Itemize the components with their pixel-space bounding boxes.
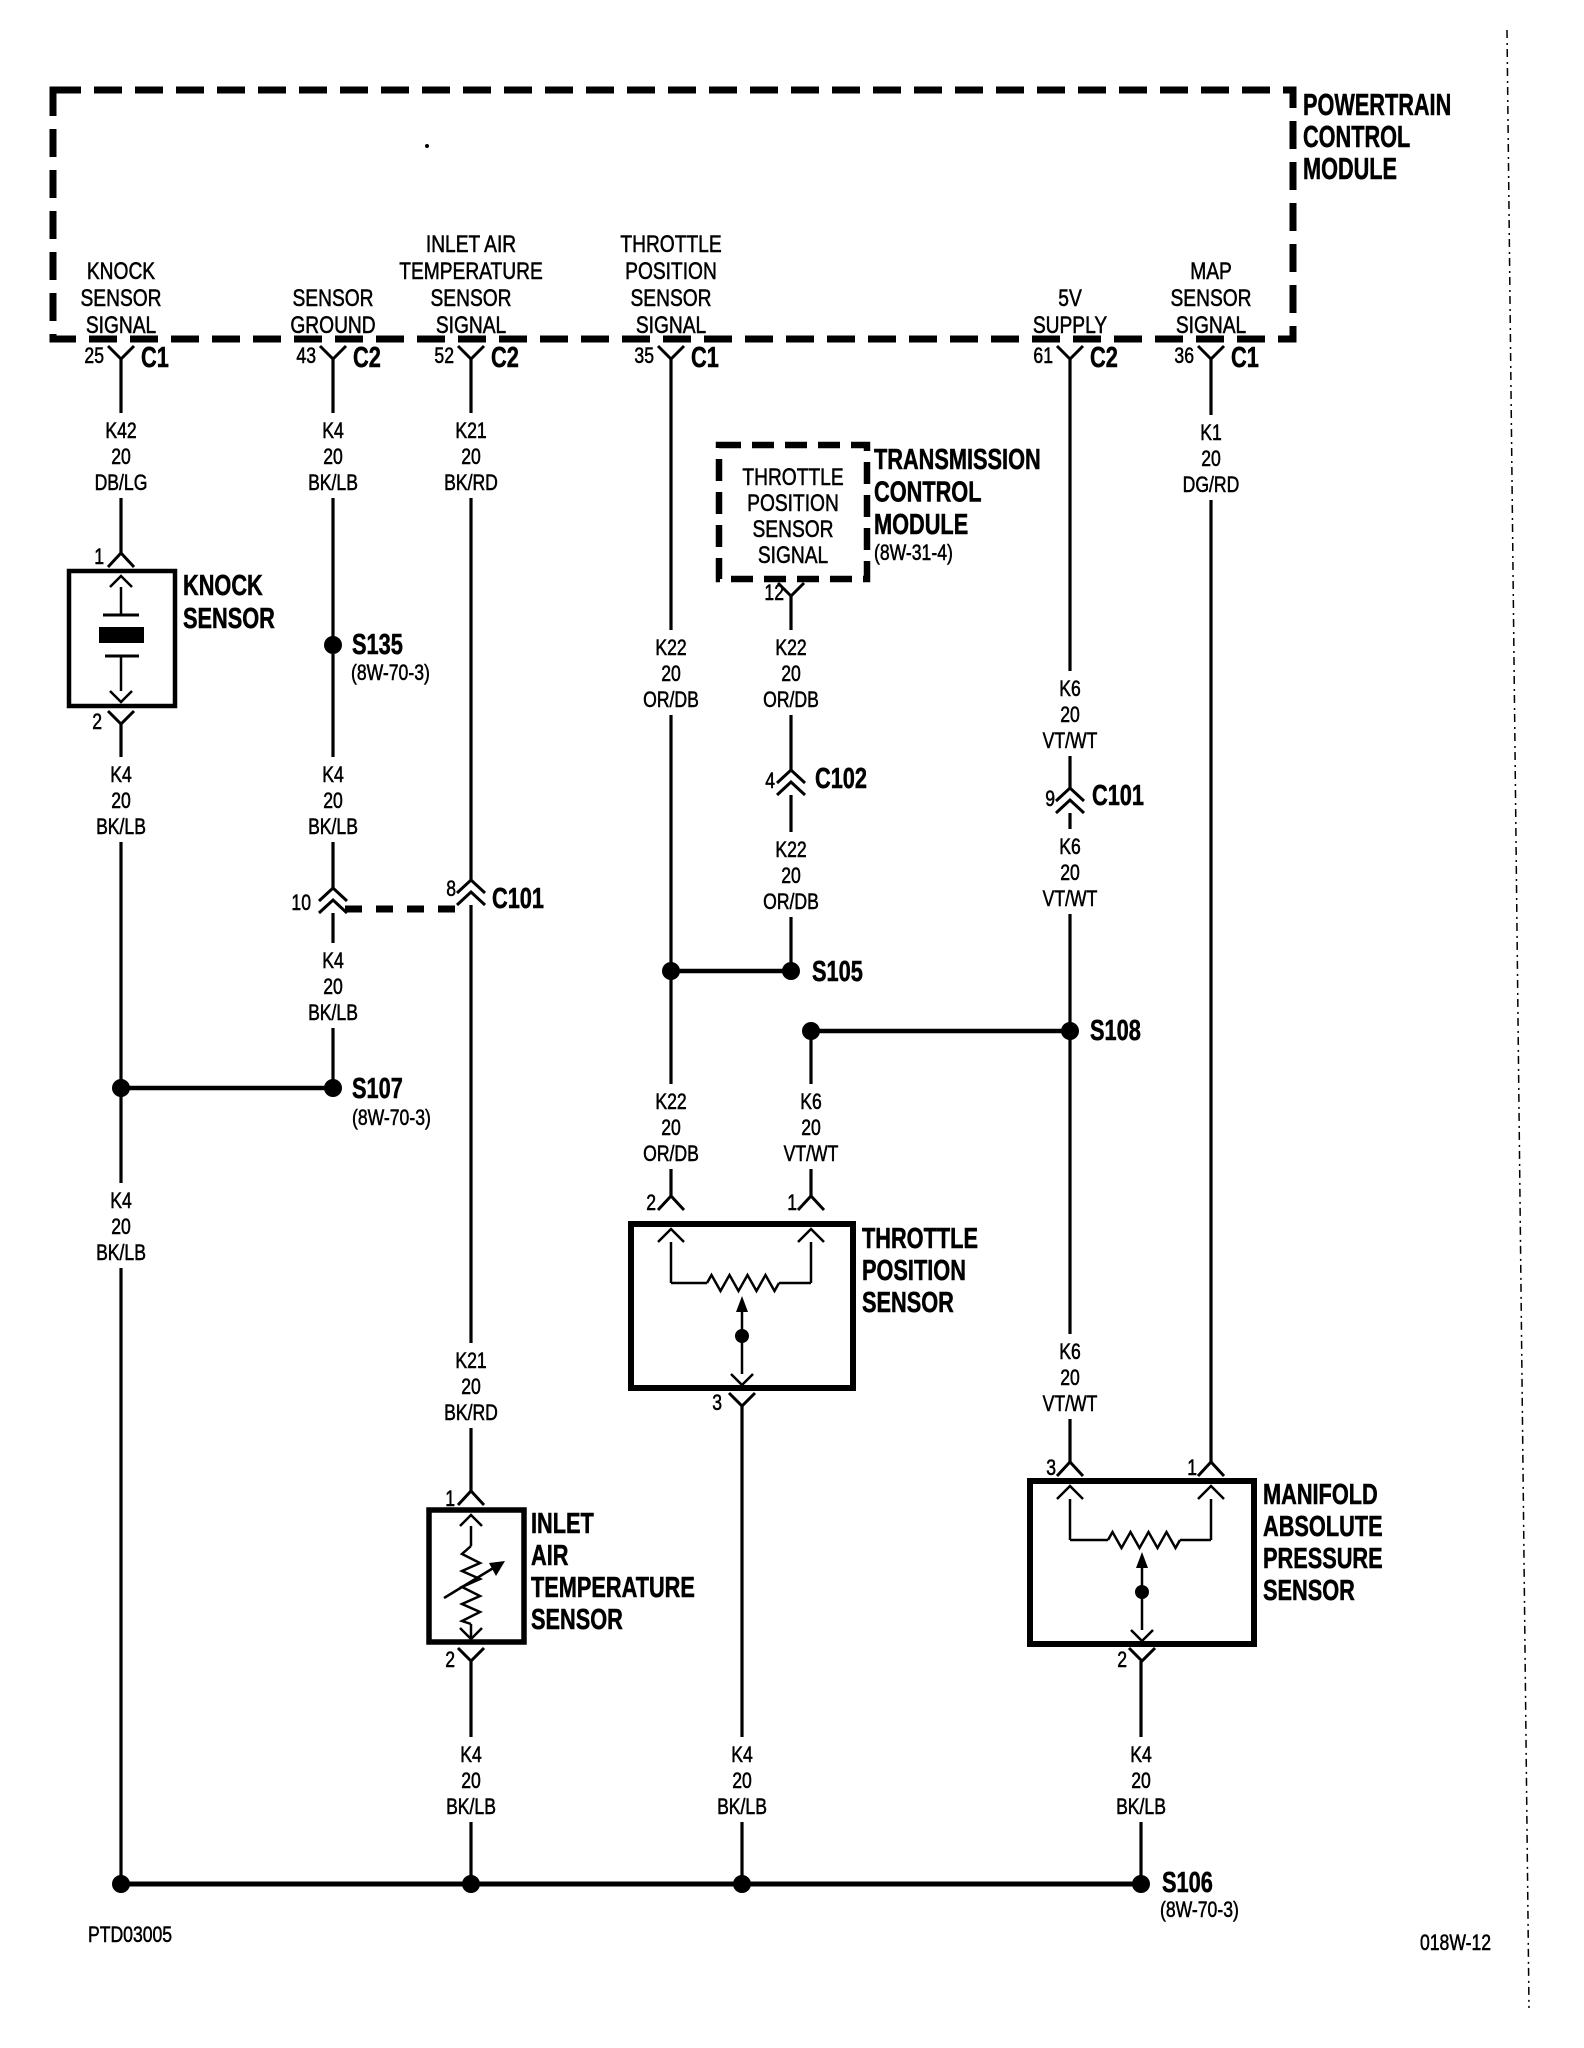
svg-text:2: 2 bbox=[1117, 1648, 1127, 1672]
svg-text:KNOCKSENSOR: KNOCKSENSOR bbox=[183, 570, 275, 635]
svg-text:PTD03005: PTD03005 bbox=[88, 1923, 172, 1947]
wire K21 20 BK/RD from connector C101 pin 8 to inlet air temperature sensor pin 1 bbox=[469, 905, 472, 1491]
knock sensor KS1 (piezoelectric element) bbox=[69, 571, 175, 706]
splice S105 junction line bbox=[662, 956, 863, 988]
PCM pin 52 connector C2 bbox=[434, 342, 518, 374]
wire K22 20 OR/DB from connector C102 to splice S105 bbox=[789, 795, 792, 967]
svg-text:S108: S108 bbox=[1090, 1015, 1141, 1047]
PCM pin function label MAP SENSOR SIGNAL bbox=[1170, 257, 1251, 339]
MAP sensor pin 2 bbox=[1117, 1648, 1155, 1673]
wire label K4 20 BK/LB bbox=[88, 757, 154, 842]
wire K42 20 DB/LG from PCM pin 25 to knock sensor pin 1 bbox=[119, 359, 122, 553]
wire label K21 20 BK/RD bbox=[438, 413, 504, 498]
wire label K6 20 VT/WT bbox=[778, 1084, 844, 1169]
throttle position sensor (potentiometer R1) bbox=[631, 1224, 853, 1388]
svg-text:C2: C2 bbox=[491, 342, 519, 374]
svg-text:2: 2 bbox=[92, 710, 102, 734]
module U1 Powertrain Control Module dashed box bbox=[53, 90, 1293, 339]
label TRANSMISSION CONTROL MODULE (8W-31-4) bbox=[874, 444, 1041, 565]
connector C101 dashed link line bbox=[345, 906, 458, 913]
PCM pin 43 connector C2 bbox=[296, 342, 380, 374]
sheet number 018W-12 bbox=[1420, 1931, 1491, 1955]
knock sensor pin 1 bbox=[94, 545, 134, 569]
PCM pin function label INLET AIR TEMPERATURE SENSOR SIGNAL bbox=[399, 230, 543, 339]
wire K6 20 VT/WT from splice S108 to MAP sensor pin 3 bbox=[1068, 1035, 1071, 1462]
manifold absolute pressure sensor (potentiometer R2) bbox=[1030, 1481, 1254, 1644]
svg-text:35: 35 bbox=[634, 344, 654, 368]
wire K4 20 BK/LB from throttle position sensor pin 3 to splice S106 bbox=[740, 1406, 743, 1884]
label POWERTRAIN CONTROL MODULE bbox=[1303, 87, 1451, 186]
wire K4 20 BK/LB from knock sensor pin 2 to splice S107 bbox=[119, 724, 122, 1084]
svg-text:1: 1 bbox=[1187, 1456, 1197, 1480]
knock sensor pin 2 bbox=[92, 710, 134, 734]
wire label K4 20 BK/LB bbox=[438, 1737, 504, 1822]
MAP sensor pin 1 bbox=[1187, 1456, 1224, 1480]
wire K21 20 BK/RD from PCM pin 52 to connector C101 pin 8 bbox=[469, 359, 472, 880]
svg-text:12: 12 bbox=[764, 581, 784, 605]
svg-text:52: 52 bbox=[434, 344, 454, 368]
diagram number PTD03005 bbox=[88, 1923, 172, 1947]
wire K4 20 BK/LB from PCM pin 43 to splice S135 bbox=[331, 359, 334, 645]
svg-text:43: 43 bbox=[296, 344, 316, 368]
PCM pin 35 connector C1 bbox=[634, 342, 718, 374]
splice S106 ground bus line bbox=[112, 1867, 1239, 1922]
connector C101 pin 9 bbox=[1045, 787, 1084, 813]
svg-text:C102: C102 bbox=[815, 763, 867, 795]
svg-text:C101: C101 bbox=[492, 883, 544, 915]
svg-text:(8W-31-4): (8W-31-4) bbox=[874, 541, 953, 565]
svg-text:C2: C2 bbox=[353, 342, 381, 374]
label KNOCK SENSOR bbox=[183, 570, 275, 635]
wire label K4 20 BK/LB bbox=[300, 413, 366, 498]
svg-text:3: 3 bbox=[1046, 1456, 1056, 1480]
svg-text:1: 1 bbox=[94, 545, 104, 569]
inlet air temperature sensor pin 1 bbox=[445, 1487, 484, 1511]
module U2 Transmission Control Module dashed box bbox=[719, 445, 867, 579]
svg-text:SENSORGROUND: SENSORGROUND bbox=[290, 284, 375, 339]
wire K6 20 VT/WT from splice S108 to throttle position sensor pin 1 bbox=[809, 1035, 812, 1196]
svg-text:C1: C1 bbox=[1231, 342, 1259, 374]
svg-text:018W-12: 018W-12 bbox=[1420, 1931, 1491, 1955]
throttle position sensor pin 3 bbox=[712, 1391, 755, 1415]
wire label K4 20 BK/LB bbox=[1108, 1737, 1174, 1822]
svg-text:3: 3 bbox=[712, 1391, 722, 1415]
svg-text:(8W-70-3): (8W-70-3) bbox=[1160, 1898, 1239, 1922]
PCM pin 25 connector C1 bbox=[84, 342, 168, 374]
svg-text:S106: S106 bbox=[1162, 1867, 1213, 1899]
PCM pin function label 5V SUPPLY bbox=[1033, 284, 1108, 339]
inlet air temperature sensor (thermistor RT1) bbox=[429, 1510, 524, 1642]
wire K22 20 OR/DB from splice S105 to throttle position sensor pin 2 bbox=[669, 975, 672, 1196]
svg-text:25: 25 bbox=[84, 344, 104, 368]
wire K6 20 VT/WT from PCM pin 61 to connector C101 pin 9 bbox=[1068, 359, 1071, 788]
throttle position sensor pin 2 bbox=[646, 1191, 684, 1215]
wire label K4 20 BK/LB bbox=[88, 1183, 154, 1268]
wire K4 20 BK/LB from splice S135 to connector C101 pin 10 bbox=[331, 654, 334, 888]
svg-text:(8W-70-3): (8W-70-3) bbox=[351, 661, 430, 685]
PCM pin function label THROTTLE POSITION SENSOR SIGNAL bbox=[620, 230, 721, 339]
splice S135 bbox=[324, 629, 430, 685]
label C102 bbox=[815, 763, 867, 795]
wire label K42 20 DB/LG bbox=[88, 413, 154, 498]
wire label K22 20 OR/DB bbox=[638, 1084, 704, 1169]
svg-text:9: 9 bbox=[1045, 787, 1055, 811]
wire K22 20 OR/DB from PCM pin 35 to splice S105 bbox=[669, 359, 672, 967]
svg-text:1: 1 bbox=[787, 1191, 797, 1215]
wire label K4 20 BK/LB bbox=[300, 757, 366, 842]
svg-text:S105: S105 bbox=[812, 956, 863, 988]
splice S108 junction line bbox=[802, 1015, 1141, 1047]
svg-text:4: 4 bbox=[765, 769, 775, 793]
label THROTTLE POSITION SENSOR bbox=[862, 1223, 978, 1319]
connector C102 pin 4 bbox=[765, 769, 805, 795]
svg-text:KNOCKSENSORSIGNAL: KNOCKSENSORSIGNAL bbox=[80, 257, 161, 339]
svg-text:36: 36 bbox=[1174, 344, 1194, 368]
wire label K1 20 DG/RD bbox=[1178, 415, 1244, 500]
svg-text:S135: S135 bbox=[352, 629, 403, 661]
wire label K21 20 BK/RD bbox=[438, 1343, 504, 1428]
label C101 bbox=[1092, 780, 1144, 812]
wire K22 20 OR/DB from TCM pin 12 to connector C102 pin 4 bbox=[789, 596, 792, 770]
svg-text:2: 2 bbox=[646, 1191, 656, 1215]
PCM pin 36 connector C1 bbox=[1174, 342, 1258, 374]
svg-text:C1: C1 bbox=[691, 342, 719, 374]
PCM pin 61 connector C2 bbox=[1033, 342, 1117, 374]
wire K1 20 DG/RD from PCM pin 36 to MAP sensor pin 1 bbox=[1209, 359, 1212, 1462]
wire label K4 20 BK/LB bbox=[709, 1737, 775, 1822]
svg-text:C101: C101 bbox=[1092, 780, 1144, 812]
wire label K6 20 VT/WT bbox=[1037, 671, 1103, 756]
TCM pin 12 bbox=[764, 581, 804, 605]
wire label K22 20 OR/DB bbox=[758, 832, 824, 917]
wire label K22 20 OR/DB bbox=[758, 630, 824, 715]
connector C101 pin 8 bbox=[446, 877, 485, 905]
wire K4 20 BK/LB from inlet air temperature sensor pin 2 to splice S106 bbox=[469, 1661, 472, 1884]
svg-text:61: 61 bbox=[1033, 344, 1053, 368]
wire K6 20 VT/WT from connector C101 pin 9 to splice S108 bbox=[1068, 813, 1071, 1027]
svg-text:10: 10 bbox=[291, 891, 311, 915]
splice S107 junction line bbox=[112, 1073, 431, 1130]
PCM pin function label KNOCK SENSOR SIGNAL bbox=[80, 257, 161, 339]
svg-text:S107: S107 bbox=[352, 1073, 403, 1105]
inlet air temperature sensor pin 2 bbox=[445, 1648, 484, 1673]
label INLET AIR TEMPERATURE SENSOR bbox=[531, 1508, 695, 1636]
svg-text:C1: C1 bbox=[141, 342, 169, 374]
wire K4 20 BK/LB from connector C101 pin 10 to splice S107 bbox=[331, 913, 334, 1084]
wire K4 20 BK/LB from splice S107 to splice S106 bbox=[119, 1092, 122, 1884]
wire label K4 20 BK/LB bbox=[300, 943, 366, 1028]
wire K4 20 BK/LB from MAP sensor pin 2 to splice S106 bbox=[1139, 1661, 1142, 1884]
wire label K22 20 OR/DB bbox=[638, 630, 704, 715]
MAP sensor pin 3 bbox=[1046, 1456, 1083, 1480]
throttle position sensor pin 1 bbox=[787, 1191, 824, 1215]
label C101 bbox=[492, 883, 544, 915]
wire label K6 20 VT/WT bbox=[1037, 829, 1103, 914]
TCM pin function label THROTTLE POSITION SENSOR SIGNAL bbox=[742, 463, 843, 569]
svg-text:C2: C2 bbox=[1090, 342, 1118, 374]
svg-text:2: 2 bbox=[445, 1648, 455, 1672]
PCM pin function label SENSOR GROUND bbox=[290, 284, 375, 339]
svg-text:8: 8 bbox=[446, 877, 456, 901]
svg-text:(8W-70-3): (8W-70-3) bbox=[352, 1106, 431, 1130]
wire label K6 20 VT/WT bbox=[1037, 1334, 1103, 1419]
label MANIFOLD ABSOLUTE PRESSURE SENSOR bbox=[1263, 1479, 1383, 1607]
connector C101 pin 10 bbox=[291, 888, 347, 916]
